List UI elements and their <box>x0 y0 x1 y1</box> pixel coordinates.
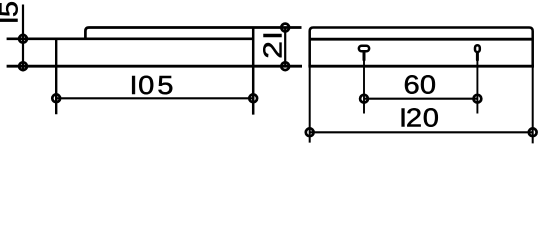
105-dim horizontal line <box>56 97 253 99</box>
right view: wall plate outline (top + sides, rounded top corners) <box>310 28 533 67</box>
svg-text:I20: I20 <box>399 103 439 132</box>
dim circle 21 top <box>281 24 289 32</box>
dim circle 15 bottom <box>19 62 27 70</box>
right view: inner shelf edge line <box>310 38 533 41</box>
120-dim line <box>310 131 533 133</box>
keyhole slot left (horizontal) <box>359 46 369 52</box>
60-dim line <box>364 98 477 100</box>
dim circle 60 right <box>474 95 482 103</box>
dim circle 105 right <box>249 94 257 102</box>
dim circle 120 right <box>529 128 537 136</box>
svg-text:I5: I5 <box>0 1 23 24</box>
left view: slab bottom edge + extensions <box>7 65 302 68</box>
dim circle 120 left <box>306 128 314 136</box>
dim circle 21 bottom <box>281 62 289 70</box>
keyhole left stem <box>363 52 366 60</box>
svg-text:I05: I05 <box>129 70 173 99</box>
left view: rail top edge with rounded left corner <box>85 28 301 39</box>
technical dimension drawing: wall-mounted shelf, side view (left) and front view (right) <box>0 0 540 145</box>
120-dim left extension <box>309 66 311 142</box>
dim circle 60 left <box>360 95 368 103</box>
keyhole left extension line <box>363 60 365 114</box>
21-dim vertical line <box>284 28 286 67</box>
left view: right edge + 105-dim extension <box>252 28 255 115</box>
left view: slab top edge + extension to 15-dim <box>7 37 254 40</box>
keyhole right stem <box>476 53 479 60</box>
dim circle 105 left <box>52 94 60 102</box>
svg-text:2I: 2I <box>259 31 288 59</box>
keyhole right extension line <box>476 60 478 114</box>
120-dim right extension <box>532 66 534 143</box>
left view: slab left edge + 105-dim extension <box>55 39 57 115</box>
dim circle 15 top <box>19 35 27 43</box>
15-dim vertical line <box>22 5 24 72</box>
keyhole slot right (vertical) <box>475 45 480 52</box>
right view: bottom edge <box>308 65 534 68</box>
svg-text:60: 60 <box>404 70 437 99</box>
